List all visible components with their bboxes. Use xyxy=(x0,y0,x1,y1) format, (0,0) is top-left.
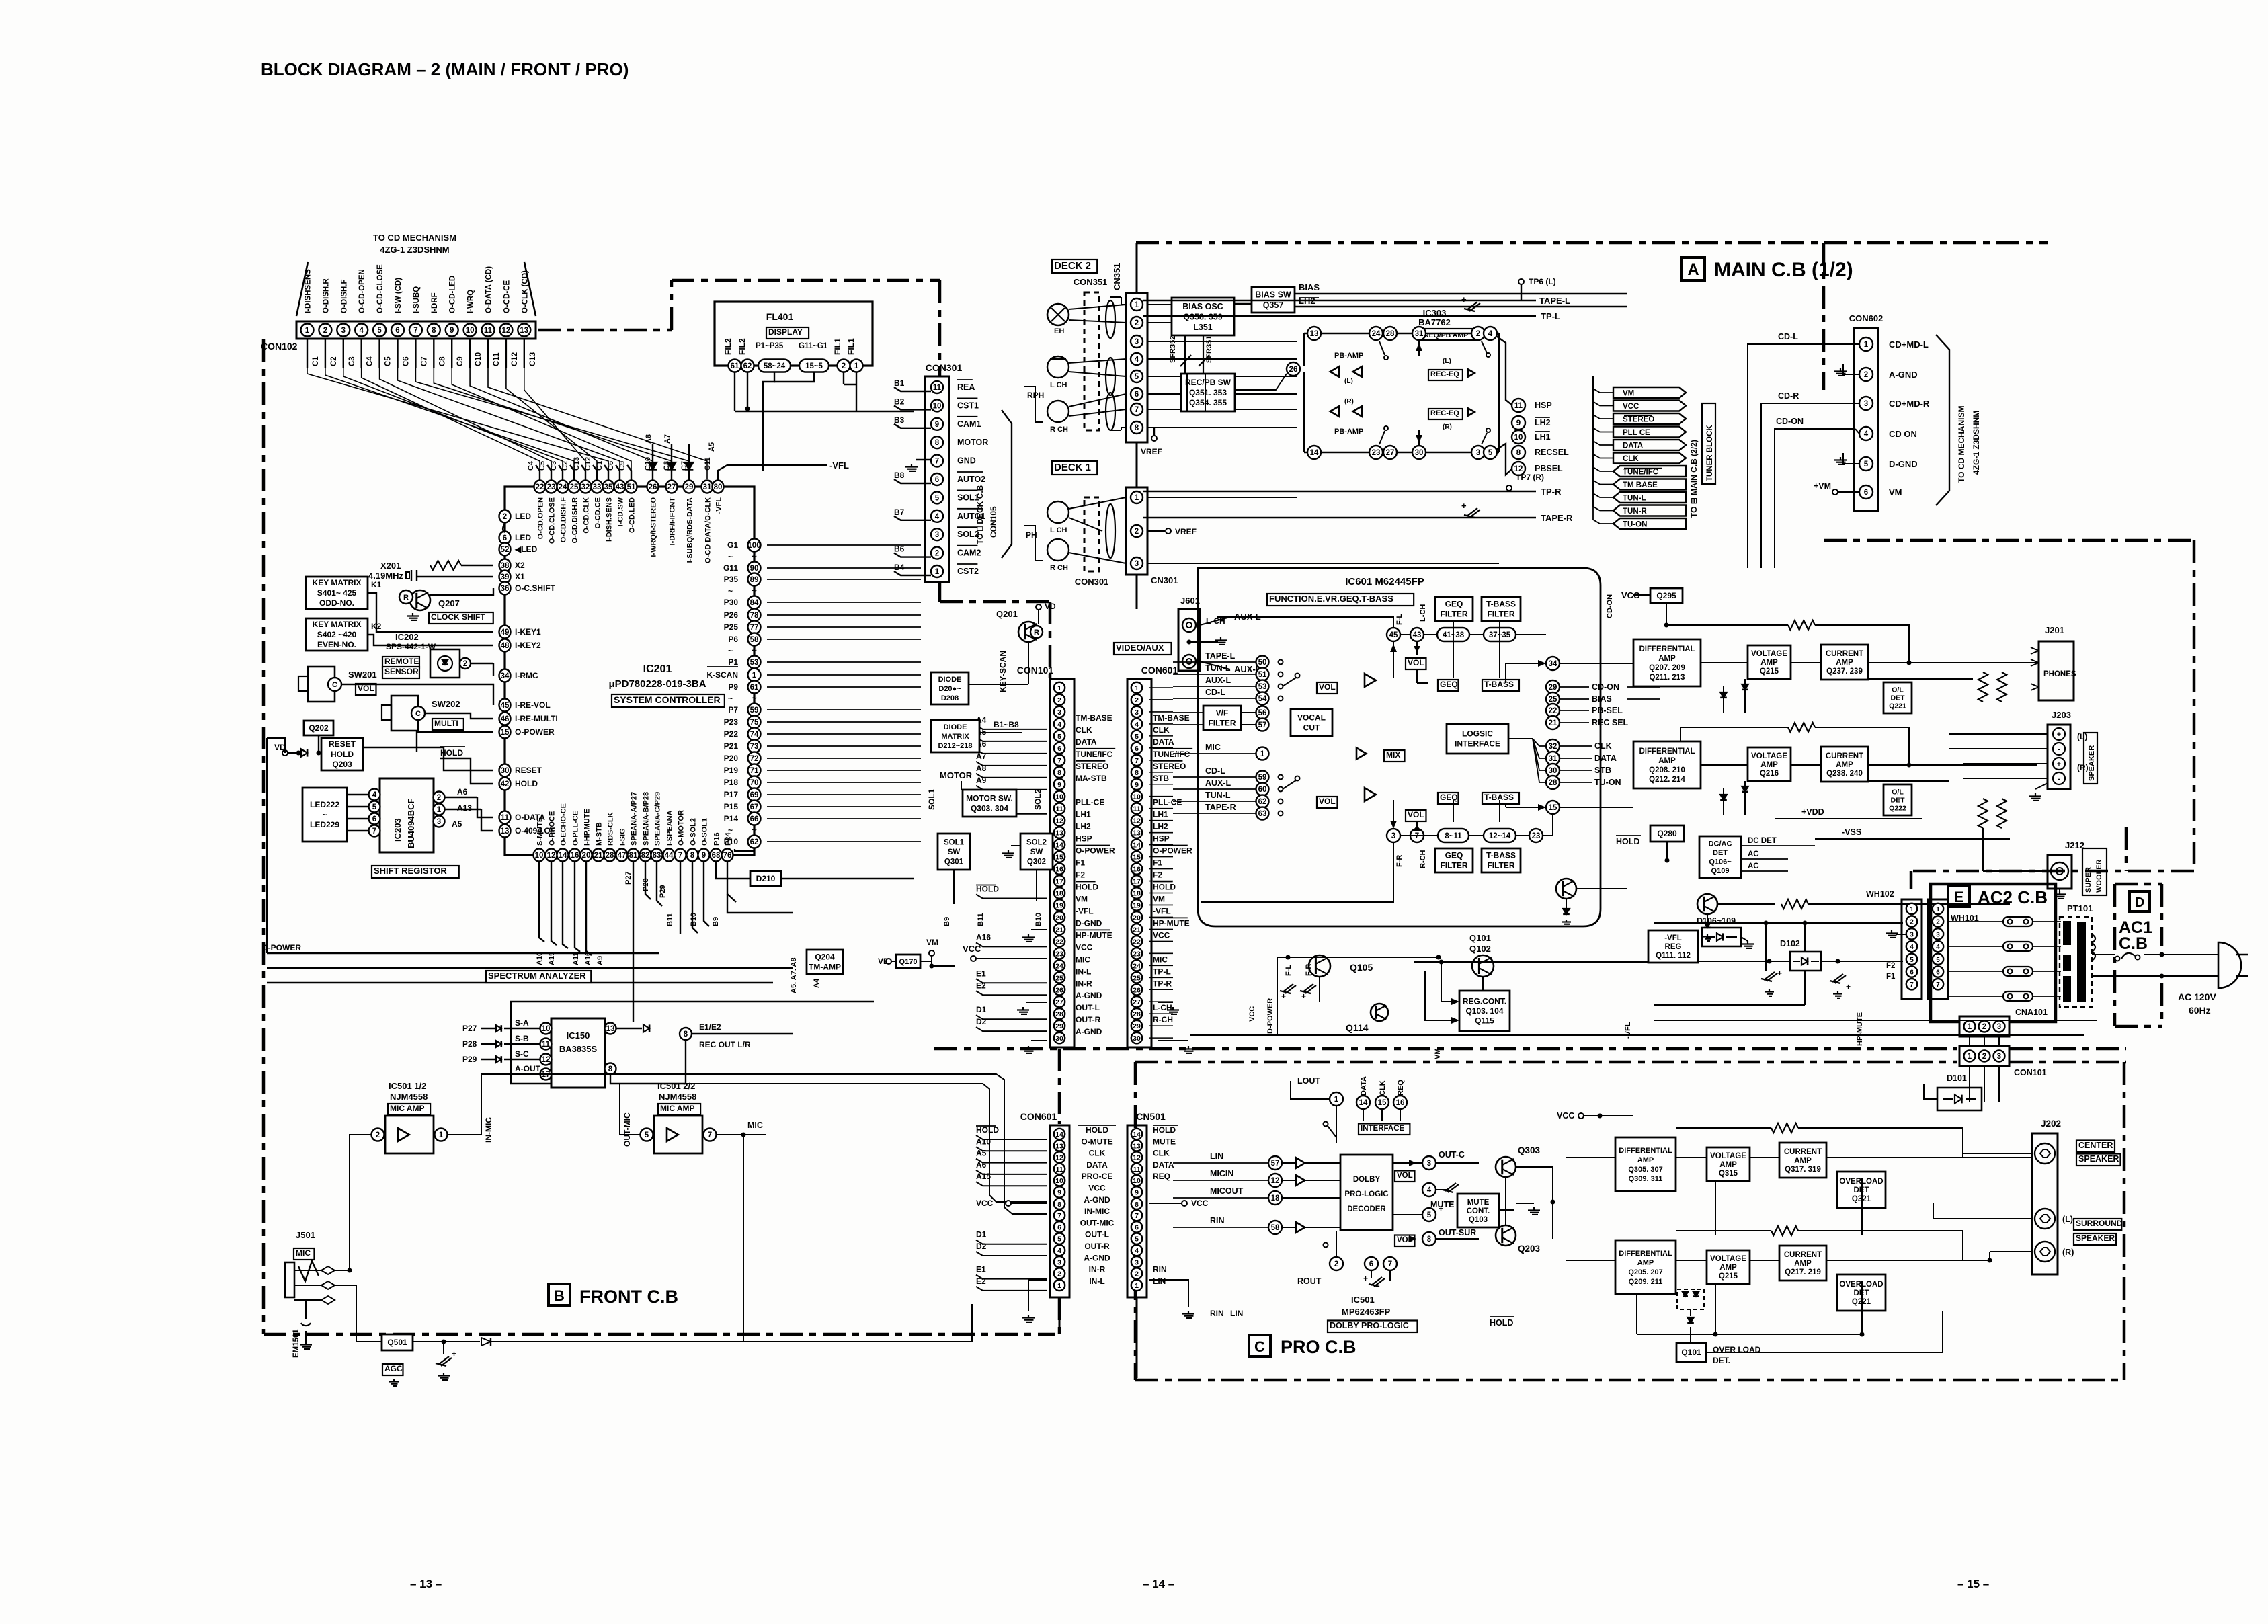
svg-text:CLK: CLK xyxy=(1153,1149,1170,1158)
svg-text:L-CH: L-CH xyxy=(1206,616,1225,626)
svg-text:8: 8 xyxy=(432,327,436,335)
svg-text:VM: VM xyxy=(926,938,938,947)
IC201 top pin 31 xyxy=(702,481,713,493)
diode block D210 xyxy=(750,871,781,886)
svg-text:12: 12 xyxy=(1055,817,1063,825)
svg-text:MICOUT: MICOUT xyxy=(1210,1186,1244,1196)
IC203 right pin 3 xyxy=(434,816,445,827)
board boundary A MAIN C.B top edge xyxy=(1136,241,2048,245)
block VOLTAGE AMP Q215 xyxy=(1748,645,1791,679)
VOL before pin3 xyxy=(1395,1171,1414,1182)
label SPECTRUM ANALYZER xyxy=(486,971,591,983)
svg-text:O/L: O/L xyxy=(1892,788,1904,797)
svg-text:P22: P22 xyxy=(724,729,739,739)
svg-text:WOOFER: WOOFER xyxy=(2095,859,2103,893)
CON602 pin 1 CD+MD-L xyxy=(1859,337,1873,351)
svg-text:G1: G1 xyxy=(727,540,738,550)
svg-text:5: 5 xyxy=(1427,1211,1432,1219)
svg-text:Q358. 359: Q358. 359 xyxy=(1183,312,1222,321)
svg-text:DATA: DATA xyxy=(1623,442,1643,450)
tuner signal TUN-L xyxy=(1613,492,1686,503)
gnd Q501 xyxy=(393,1379,395,1382)
svg-text:F-L: F-L xyxy=(1395,614,1404,625)
svg-text:MA-STB: MA-STB xyxy=(1076,774,1107,783)
IC203 left pin 4 xyxy=(369,789,380,801)
svg-text:AMP: AMP xyxy=(1794,1157,1812,1165)
svg-text:A4: A4 xyxy=(813,978,821,988)
svg-text:~: ~ xyxy=(728,586,733,596)
svg-text:VCC: VCC xyxy=(1248,1006,1256,1022)
svg-text:SOL1: SOL1 xyxy=(944,839,965,847)
LED block LED222~LED229 xyxy=(302,788,347,842)
svg-text:TUNE/IFC: TUNE/IFC xyxy=(1076,749,1113,759)
svg-text:A-GND: A-GND xyxy=(1084,1253,1110,1262)
svg-text:6: 6 xyxy=(1057,745,1061,753)
svg-text:SPS-442-1-W: SPS-442-1-W xyxy=(386,642,436,651)
svg-text:45: 45 xyxy=(501,702,510,710)
svg-text:18: 18 xyxy=(1133,889,1141,897)
svg-text:D101: D101 xyxy=(1947,1073,1967,1083)
svg-text:L-CH: L-CH xyxy=(1153,1003,1172,1012)
svg-text:56: 56 xyxy=(1258,709,1267,717)
svg-text:O-POWER: O-POWER xyxy=(1076,846,1115,856)
svg-text:3: 3 xyxy=(1135,560,1139,568)
svg-text:VCC: VCC xyxy=(1557,1111,1574,1121)
svg-text:GND: GND xyxy=(957,456,976,466)
svg-text:A5: A5 xyxy=(976,1149,987,1158)
svg-text:Q303. 304: Q303. 304 xyxy=(971,804,1008,813)
svg-text:39: 39 xyxy=(501,573,510,581)
IC601 pins 45 43 top xyxy=(1387,628,1400,641)
svg-text:23: 23 xyxy=(1532,832,1541,840)
wires amp outputs to jacks xyxy=(1868,678,1973,680)
block OVERLOAD DET Q321 xyxy=(1837,1172,1886,1208)
block OVERLOAD DET Q221 sur xyxy=(1837,1274,1886,1311)
svg-text:AMP: AMP xyxy=(1658,757,1676,765)
wires matrix xyxy=(969,684,1028,685)
svg-text:Q114: Q114 xyxy=(1346,1022,1369,1033)
board boundary C PRO C.B left edge xyxy=(1134,1062,1137,1380)
svg-text:MAIN C.B (1/2): MAIN C.B (1/2) xyxy=(1714,259,1853,281)
svg-text:2: 2 xyxy=(1982,1053,1986,1061)
svg-text:10: 10 xyxy=(1055,1177,1063,1185)
svg-text:MUTE: MUTE xyxy=(1467,1199,1490,1207)
svg-text:IC601 M62445FP: IC601 M62445FP xyxy=(1345,576,1424,587)
IC201 left pin 15 O-POWER xyxy=(499,726,511,739)
svg-text:2: 2 xyxy=(1057,696,1061,704)
connector CON102 xyxy=(296,321,536,339)
wires CNA101 to CON101-3 xyxy=(1969,1037,1970,1046)
FL401 pins 58~24 xyxy=(758,360,791,372)
resistor feedback sur 1 xyxy=(1771,1123,1798,1133)
svg-text:53: 53 xyxy=(750,659,759,667)
svg-text:NJM4558: NJM4558 xyxy=(390,1092,428,1102)
wires deck2 heads to CN351 xyxy=(1069,304,1126,309)
svg-text:A-GND: A-GND xyxy=(1084,1195,1110,1205)
svg-text:P7: P7 xyxy=(728,705,738,715)
CON602 pin 5 D-GND xyxy=(1859,457,1873,471)
wire strip verticals xyxy=(1059,1297,1061,1333)
svg-text:D-GND: D-GND xyxy=(1889,459,1918,469)
wire remote to pin34 I-RMC xyxy=(471,663,493,664)
svg-text:Q201: Q201 xyxy=(996,609,1018,619)
svg-text:P26: P26 xyxy=(724,610,739,620)
svg-text:5: 5 xyxy=(1057,1235,1061,1244)
svg-text:1: 1 xyxy=(1260,750,1265,758)
svg-text:HOLD: HOLD xyxy=(440,748,463,758)
label CENTER SPEAKER xyxy=(2076,1141,2115,1153)
svg-text:VOLTAGE: VOLTAGE xyxy=(1710,1152,1746,1160)
svg-text:78: 78 xyxy=(750,612,759,620)
connector CON351 dashed xyxy=(1084,292,1099,430)
IC601 pins 41~38 37~35 xyxy=(1437,628,1469,641)
svg-text:+VM: +VM xyxy=(1814,481,1831,491)
svg-text:F-L: F-L xyxy=(1285,965,1293,976)
wire P10 pin62 jog to pin76 xyxy=(735,848,754,851)
cap AGC xyxy=(443,1342,444,1354)
svg-text:17: 17 xyxy=(1133,878,1141,886)
svg-text:46: 46 xyxy=(501,715,510,723)
svg-text:14: 14 xyxy=(1310,449,1319,457)
svg-text:BIAS OSC: BIAS OSC xyxy=(1182,302,1223,311)
svg-text:SPEAKER: SPEAKER xyxy=(2076,1233,2115,1243)
block CURRENT AMP Q237,239 xyxy=(1821,645,1868,680)
IC201 left pin 11 O-DATA xyxy=(499,811,511,824)
svg-text:TO CD MECHANISM: TO CD MECHANISM xyxy=(373,233,456,243)
svg-text:3: 3 xyxy=(437,818,441,826)
svg-text:O-PROCE: O-PROCE xyxy=(549,811,557,846)
svg-text:48: 48 xyxy=(501,642,510,650)
svg-text:RIN: RIN xyxy=(1153,1265,1167,1274)
svg-text:81: 81 xyxy=(629,852,638,860)
block BIAS SW Q357 xyxy=(1252,287,1295,313)
svg-text:1: 1 xyxy=(1936,906,1940,913)
svg-text:DATA: DATA xyxy=(1076,737,1097,747)
svg-text:4: 4 xyxy=(1864,430,1869,438)
svg-text:I-WRQ/I-STEREO: I-WRQ/I-STEREO xyxy=(650,497,658,557)
svg-text:-: - xyxy=(2058,745,2060,754)
svg-text:CURRENT: CURRENT xyxy=(1784,1148,1822,1156)
svg-text:MOTOR: MOTOR xyxy=(940,770,973,780)
svg-text:CAM2: CAM2 xyxy=(957,549,981,558)
wire BIAS xyxy=(1295,293,1627,294)
svg-text:O-PLL-CE: O-PLL-CE xyxy=(572,811,580,846)
svg-text:12: 12 xyxy=(542,1056,551,1064)
svg-text:LIN: LIN xyxy=(1230,1309,1243,1318)
svg-text:(L): (L) xyxy=(1344,378,1353,385)
svg-text:7: 7 xyxy=(372,827,376,836)
IC201 bottom pin 14 O-ECHO-CE xyxy=(557,849,569,862)
svg-text:BLOCK DIAGRAM – 2 (MAIN / FR: BLOCK DIAGRAM – 2 (MAIN / FRONT / PRO) xyxy=(261,59,629,79)
connector CON301 deck control xyxy=(925,376,949,582)
svg-text:24: 24 xyxy=(1372,330,1381,338)
svg-text:◀LED: ◀LED xyxy=(514,544,538,554)
svg-text:73: 73 xyxy=(750,743,759,751)
svg-text:D210: D210 xyxy=(756,874,776,883)
svg-text:51: 51 xyxy=(627,483,636,491)
svg-text:C7: C7 xyxy=(680,461,688,471)
wire IC203 pin1 to O-4094CE pin13 xyxy=(445,809,481,810)
block DIFFERENTIAL AMP Q207,209 Q211,213 xyxy=(1633,639,1701,686)
svg-text:OUT-MIC: OUT-MIC xyxy=(1080,1218,1115,1227)
svg-text:27: 27 xyxy=(667,483,676,491)
block LOGSIC INTERFACE xyxy=(1447,724,1508,754)
IC201 top pin 25 xyxy=(569,481,580,493)
svg-text:4: 4 xyxy=(935,513,940,521)
wires q105 area xyxy=(1277,957,1439,958)
trimmer SFR351 xyxy=(1203,335,1204,376)
IC U203 BU4094BCF xyxy=(380,778,434,852)
block Q204 TM-AMP xyxy=(807,950,843,974)
wire TAPE-R xyxy=(1143,517,1536,518)
svg-text:83: 83 xyxy=(653,852,661,860)
IC150 pin 8 xyxy=(605,1063,616,1075)
svg-text:EVEN-NO.: EVEN-NO. xyxy=(317,640,356,649)
svg-text:E1/E2: E1/E2 xyxy=(699,1022,721,1032)
svg-text:Q280: Q280 xyxy=(1657,829,1677,838)
CON301 pin 8 MOTOR xyxy=(931,436,943,448)
block T-BASS FILTER bottom xyxy=(1482,848,1521,872)
svg-text:I-HP.MUTE: I-HP.MUTE xyxy=(583,809,592,846)
svg-text:LH1: LH1 xyxy=(1153,810,1168,819)
svg-text:K-SCAN: K-SCAN xyxy=(706,670,738,680)
arrow up at 45 xyxy=(1393,641,1394,678)
wire CON102 pin 1 drop xyxy=(307,338,308,368)
svg-text:HOLD: HOLD xyxy=(976,884,999,893)
board boundary B top edge from CON102 xyxy=(538,329,672,332)
svg-text:52: 52 xyxy=(501,546,510,554)
svg-text:3: 3 xyxy=(1391,832,1395,840)
IC201 bottom pin 10 S-MUTE xyxy=(534,849,545,862)
IC201 top pin 24 xyxy=(557,481,569,493)
block O/L DET Q222 xyxy=(1884,784,1912,815)
svg-text:27: 27 xyxy=(1133,998,1141,1006)
svg-text:O-DATA (CD): O-DATA (CD) xyxy=(485,266,493,313)
svg-text:F1: F1 xyxy=(1076,858,1085,868)
svg-text:MP62463FP: MP62463FP xyxy=(1342,1307,1391,1317)
svg-text:LED222: LED222 xyxy=(310,800,339,809)
svg-text:E1: E1 xyxy=(976,969,986,978)
svg-text:-VSS: -VSS xyxy=(1842,827,1861,837)
svg-text:36: 36 xyxy=(501,585,510,593)
AC switch and fuse to plug xyxy=(2092,954,2115,955)
svg-text:P29: P29 xyxy=(659,885,667,898)
svg-text:REC SEL: REC SEL xyxy=(1592,718,1629,727)
svg-text:26: 26 xyxy=(1133,986,1141,994)
svg-text:G11~G1: G11~G1 xyxy=(799,342,828,350)
svg-text:MOTOR: MOTOR xyxy=(957,438,988,447)
svg-text:29: 29 xyxy=(1055,1022,1063,1030)
IC303 pin 14 xyxy=(1307,446,1321,459)
svg-text:11: 11 xyxy=(1055,805,1063,813)
svg-text:REC/PB SW: REC/PB SW xyxy=(1185,378,1231,387)
svg-text:2: 2 xyxy=(1057,1270,1061,1278)
svg-text:CD-L: CD-L xyxy=(1205,688,1225,697)
svg-text:66: 66 xyxy=(750,815,759,823)
svg-text:SFR352: SFR352 xyxy=(1169,336,1177,363)
svg-text:J601: J601 xyxy=(1180,596,1200,606)
svg-text:8: 8 xyxy=(1135,1201,1139,1209)
wire CON102 pin 11 drop xyxy=(487,338,489,368)
svg-text:B1: B1 xyxy=(894,378,905,388)
svg-text:FILTER: FILTER xyxy=(1440,610,1467,619)
cap at pin4 xyxy=(1436,1189,1449,1190)
block O/L DET Q221 xyxy=(1884,682,1912,713)
svg-text:P21: P21 xyxy=(724,741,739,751)
svg-text:VCC: VCC xyxy=(976,1199,994,1208)
wire RESET to pin30 xyxy=(363,747,493,770)
transistor Q201 xyxy=(1018,622,1039,642)
tuner signal TUNE/IFC xyxy=(1613,466,1686,477)
svg-text:4.19MHz: 4.19MHz xyxy=(368,571,404,581)
bus wires under IC201 xyxy=(539,861,544,942)
svg-text:57: 57 xyxy=(1258,721,1267,729)
svg-text:C1: C1 xyxy=(596,461,604,471)
svg-text:1: 1 xyxy=(1057,684,1061,692)
svg-text:X201: X201 xyxy=(380,561,401,571)
svg-text:BIAS: BIAS xyxy=(1592,694,1612,704)
svg-text:+: + xyxy=(1363,1274,1368,1283)
svg-text:54: 54 xyxy=(1258,695,1267,703)
svg-text:6: 6 xyxy=(395,327,399,335)
svg-text:2: 2 xyxy=(1910,919,1914,926)
gnd J203 xyxy=(2035,793,2036,797)
IC601 MIC pin 1 xyxy=(1256,747,1269,760)
svg-text:T-BASS: T-BASS xyxy=(1484,680,1514,689)
svg-text:I-CD.SW: I-CD.SW xyxy=(617,497,625,526)
svg-text:1: 1 xyxy=(752,672,757,680)
diode array A8 A7 A5 above pins 26 27 29 xyxy=(652,444,653,481)
svg-text:28: 28 xyxy=(1055,1010,1063,1018)
wires power verticals xyxy=(1765,923,1767,971)
svg-text:A13: A13 xyxy=(457,803,472,813)
wire FL401 pin drops xyxy=(734,372,735,411)
svg-text:AC: AC xyxy=(1748,850,1759,858)
svg-text:SOL1: SOL1 xyxy=(927,788,936,810)
svg-text:MATRIX: MATRIX xyxy=(941,733,969,741)
svg-text:6: 6 xyxy=(372,815,376,823)
CON301 pin 2 CAM2 xyxy=(931,547,943,559)
IC201 right pin 84 P30 xyxy=(748,596,761,609)
svg-text:A6: A6 xyxy=(457,787,468,797)
svg-text:13: 13 xyxy=(1055,829,1063,838)
wire CON601 to IC601 fan xyxy=(1149,687,1173,688)
svg-text:22: 22 xyxy=(1133,938,1141,946)
svg-text:BIAS SW: BIAS SW xyxy=(1255,290,1291,300)
svg-text:9: 9 xyxy=(1057,781,1061,789)
CON301 pin 7 GND xyxy=(931,455,943,467)
wire mic to AGC feedback xyxy=(511,1135,743,1342)
display FL401 box xyxy=(715,302,873,366)
node VREF deck2 xyxy=(1151,436,1157,441)
svg-text:FUNCTION.E.VR.GEQ.T-BASS: FUNCTION.E.VR.GEQ.T-BASS xyxy=(1269,594,1393,604)
svg-text:P9: P9 xyxy=(728,682,738,692)
svg-text:12: 12 xyxy=(1271,1177,1280,1185)
svg-text:E1: E1 xyxy=(976,1265,986,1274)
wire fan CON102 to IC201 top pins xyxy=(362,368,540,479)
svg-text:CUT: CUT xyxy=(1303,723,1320,733)
block CURRENT AMP Q317,319 xyxy=(1779,1143,1826,1178)
svg-text:8: 8 xyxy=(1057,769,1061,777)
svg-text:1: 1 xyxy=(1135,684,1139,692)
svg-text:GEQ: GEQ xyxy=(1445,851,1463,860)
svg-text:C12: C12 xyxy=(511,352,519,366)
svg-text:(L): (L) xyxy=(1443,358,1451,365)
svg-text:4: 4 xyxy=(1057,721,1061,729)
svg-text:O-ECHO-CE: O-ECHO-CE xyxy=(560,803,568,846)
wire IC201 right fan to CON101 xyxy=(767,544,921,546)
svg-text:23: 23 xyxy=(1372,449,1381,457)
svg-text:62: 62 xyxy=(743,362,752,370)
svg-text:X1: X1 xyxy=(515,572,525,581)
svg-text:Q215: Q215 xyxy=(1760,667,1779,676)
svg-text:TUN-L: TUN-L xyxy=(1205,790,1231,800)
CON301 pin 6 AUTO2 xyxy=(931,473,943,485)
svg-text:O-MOTOR: O-MOTOR xyxy=(678,810,686,846)
svg-text:9: 9 xyxy=(1057,1189,1061,1197)
wire P16 P24 to D210 xyxy=(716,861,750,879)
svg-text:15: 15 xyxy=(501,729,510,737)
svg-text:PB-AMP: PB-AMP xyxy=(1334,428,1363,436)
CON602 pin 2 A-GND xyxy=(1859,368,1873,381)
IC201 top pin 80 xyxy=(713,481,724,493)
wire D101 to J202 col xyxy=(1923,1049,1925,1084)
wire E1/E2 REC OUT xyxy=(680,1028,692,1040)
svg-text:CURRENT: CURRENT xyxy=(1784,1251,1822,1259)
svg-text:F1: F1 xyxy=(1153,858,1162,868)
svg-text:DIFFERENTIAL: DIFFERENTIAL xyxy=(1639,747,1695,756)
wire K1 to I-KEY1 xyxy=(368,593,493,632)
FL401 pin 2 xyxy=(838,360,850,372)
transistor Q207 xyxy=(410,590,430,610)
amp R xyxy=(1365,788,1376,801)
svg-text:O-C.SHIFT: O-C.SHIFT xyxy=(515,583,556,593)
IC150 pin 17 A-OUT xyxy=(540,1069,552,1080)
svg-text:DIFFERENTIAL: DIFFERENTIAL xyxy=(1639,645,1695,653)
svg-text:Q208. 210: Q208. 210 xyxy=(1649,766,1685,774)
svg-text:10: 10 xyxy=(535,852,544,860)
svg-text:CON301: CON301 xyxy=(926,362,963,373)
IC201 left pin 39 X1 xyxy=(499,571,511,583)
svg-text:~: ~ xyxy=(752,585,757,596)
svg-text:Q309. 311: Q309. 311 xyxy=(1629,1175,1663,1183)
svg-text:R-CH: R-CH xyxy=(1153,1015,1173,1024)
block T-BASS top xyxy=(1482,680,1519,691)
board boundary A bottom edge xyxy=(934,1047,1957,1051)
svg-text:RIN: RIN xyxy=(1210,1309,1224,1318)
svg-text:MICIN: MICIN xyxy=(1210,1169,1233,1178)
svg-text:6: 6 xyxy=(935,476,939,484)
IC201 bottom pin 9 O-SOL1 xyxy=(698,849,710,862)
svg-text:10: 10 xyxy=(1133,793,1141,801)
svg-text:34: 34 xyxy=(501,672,510,680)
svg-text:C9: C9 xyxy=(618,461,626,471)
svg-text:LIN: LIN xyxy=(1210,1151,1223,1161)
svg-text:28: 28 xyxy=(1549,779,1557,787)
svg-text:B6: B6 xyxy=(894,544,905,554)
svg-text:11: 11 xyxy=(484,327,493,335)
switch at pins 24/28 xyxy=(1379,341,1385,355)
svg-text:MIX: MIX xyxy=(1386,750,1400,760)
block DIFFERENTIAL AMP Q205,207 Q209,211 xyxy=(1615,1240,1676,1294)
svg-text:FIL1: FIL1 xyxy=(846,338,856,355)
wires CD-L CD-R to main xyxy=(1748,344,1778,568)
CN351 pin 3 xyxy=(1131,335,1143,348)
svg-text:D2: D2 xyxy=(976,1017,987,1026)
gnd CON301 pin7 xyxy=(911,464,912,467)
svg-text:O-CD-OPEN: O-CD-OPEN xyxy=(358,269,366,313)
svg-text:60Hz: 60Hz xyxy=(2189,1005,2211,1016)
